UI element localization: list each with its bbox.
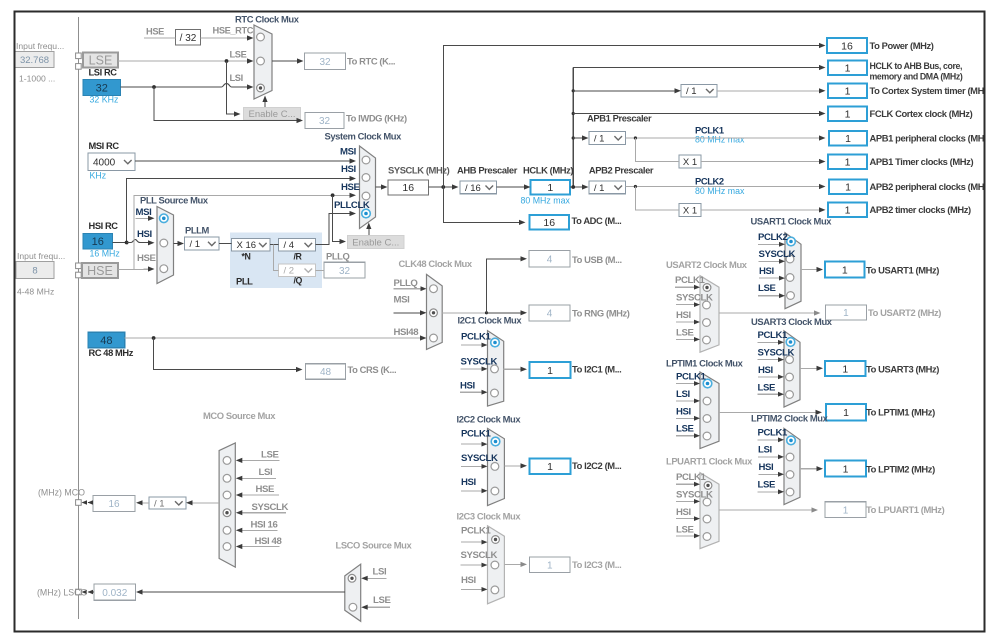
PLLQ dropdown /2 <box>279 264 316 277</box>
wire to cortex prescaler <box>573 90 675 92</box>
stub LSI to LSCO mux <box>367 577 387 579</box>
svg-text:1: 1 <box>842 363 848 375</box>
cortex prescaler dropdown /1 <box>681 84 717 97</box>
svg-text:16: 16 <box>402 182 414 194</box>
svg-text:MSI: MSI <box>394 295 411 306</box>
APB2 multiplier X1 <box>679 204 701 217</box>
usart3 radio LSE <box>786 391 794 399</box>
svg-text:/ 2: / 2 <box>284 266 295 277</box>
RTC Clock Mux <box>254 25 272 99</box>
svg-text:16 MHz: 16 MHz <box>90 249 120 259</box>
stub SYSCLK to USART2 mux <box>676 304 695 306</box>
junction SYSCLK <box>441 185 445 189</box>
wire I2C1 out <box>504 368 521 370</box>
usart2 radio PCLK1 selected <box>703 284 711 292</box>
svg-text:I2C3 Clock Mux: I2C3 Clock Mux <box>457 511 522 522</box>
LSCO connector square <box>76 589 82 595</box>
LPTIM1 value box 1 <box>826 404 866 421</box>
svg-text:HSI48: HSI48 <box>394 327 420 338</box>
junction CLK48 out <box>485 311 488 314</box>
svg-text:16: 16 <box>841 40 853 52</box>
svg-text:HSI: HSI <box>759 462 775 473</box>
svg-text:/R: /R <box>294 252 303 262</box>
I2C3 Clock Mux <box>488 526 505 604</box>
junction APB1 timer branch <box>634 136 637 139</box>
svg-text:16: 16 <box>92 236 104 248</box>
svg-text:KHz: KHz <box>90 171 107 181</box>
i2c3 radio SYSCLK <box>491 561 499 569</box>
svg-text:PLL: PLL <box>236 276 253 287</box>
wire LSI to RTC mux with hop <box>121 84 248 88</box>
mco radio HSI48 <box>223 543 231 551</box>
svg-text:SYSCLK: SYSCLK <box>676 490 713 501</box>
wire cortex prescaler to box <box>717 90 820 92</box>
svg-text:SYSCLK: SYSCLK <box>759 249 796 260</box>
svg-text:/ 1: / 1 <box>594 183 605 194</box>
I2C2 Clock Mux <box>488 428 505 505</box>
usart2 radio HSI <box>703 319 711 327</box>
wire HSE to PLL mux <box>134 268 149 270</box>
svg-text:32: 32 <box>319 57 331 68</box>
svg-text:1: 1 <box>845 63 851 75</box>
svg-text:PLLCLK: PLLCLK <box>334 200 370 211</box>
margin mask right <box>986 0 999 640</box>
lptim2 radio LSE <box>786 488 794 496</box>
svg-text:To LPTIM2 (MHz): To LPTIM2 (MHz) <box>866 464 935 475</box>
svg-text:HSI: HSI <box>460 381 476 392</box>
wire SYSCLK to Power <box>443 46 819 188</box>
svg-text:1: 1 <box>547 182 553 194</box>
svg-text:1: 1 <box>845 156 851 168</box>
stub LSI to MCO mux <box>241 477 276 479</box>
lptim2 radio LSI <box>786 453 794 461</box>
wire xN to /R <box>270 243 279 245</box>
svg-text:HSI: HSI <box>676 407 692 418</box>
stub LSE to LPTIM2 mux <box>758 491 779 493</box>
svg-text:RC 48 MHz: RC 48 MHz <box>89 348 134 358</box>
svg-text:HCLK (MHz): HCLK (MHz) <box>523 165 573 176</box>
wire SYSCLK to ADC <box>443 187 519 222</box>
svg-text:To ADC (M...: To ADC (M... <box>572 215 622 226</box>
svg-text:LPTIM2 Clock Mux: LPTIM2 Clock Mux <box>751 413 829 424</box>
svg-text:LSI: LSI <box>259 467 273 478</box>
svg-text:LPTIM1 Clock Mux: LPTIM1 Clock Mux <box>666 358 744 369</box>
PLL mux radio HSI <box>160 239 168 247</box>
mco radio HSE <box>223 491 231 499</box>
stub HSI to USART2 mux <box>676 321 695 323</box>
junction cortex row <box>572 89 575 92</box>
APB2 prescaler dropdown /1 <box>589 181 626 194</box>
i2c1 radio HSI <box>491 389 499 397</box>
stub SYSCLK to I2C3 mux <box>461 564 483 566</box>
svg-text:APB2 Prescaler: APB2 Prescaler <box>589 165 654 176</box>
svg-text:/ 1: / 1 <box>594 133 605 144</box>
USART1 Clock Mux <box>785 233 801 309</box>
CRS value box 48 <box>306 364 346 380</box>
svg-text:16: 16 <box>543 217 555 229</box>
wire LSE to RTC mux <box>118 60 248 62</box>
wire MSI to System mux <box>135 160 350 162</box>
stub PCLK1 to USART3 mux <box>758 341 779 343</box>
svg-text:LSI: LSI <box>758 445 772 456</box>
svg-text:CLK48 Clock Mux: CLK48 Clock Mux <box>399 258 473 269</box>
stub LSE to LPTIM1 mux <box>676 435 695 437</box>
svg-text:/ 1: / 1 <box>154 498 165 509</box>
svg-text:LSI: LSI <box>373 567 387 578</box>
I2C1 value box 1 <box>530 362 571 378</box>
svg-text:1: 1 <box>843 407 849 419</box>
svg-text:LSI: LSI <box>676 389 690 400</box>
svg-text:APB2 timer clocks (MHz): APB2 timer clocks (MHz) <box>870 204 972 215</box>
stub MSI to CLK48 mux <box>394 312 421 314</box>
HSE input frequency field 8 <box>16 262 54 279</box>
svg-text:/ 16: / 16 <box>465 183 481 194</box>
svg-text:To LPUART1 (MHz): To LPUART1 (MHz) <box>866 504 945 515</box>
usart2 radio SYSCLK <box>703 301 711 309</box>
clk48 radio MSI selected <box>430 309 438 317</box>
System Clock Mux <box>360 146 376 229</box>
usart1 radio PCLK2 selected <box>787 237 796 246</box>
svg-text:SYSCLK: SYSCLK <box>461 550 498 561</box>
stub PCLK1 to I2C3 mux <box>461 541 482 543</box>
usart1 radio HSI <box>786 274 794 282</box>
HSE connector squares <box>76 263 82 269</box>
lptim1 radio HSI <box>703 415 711 423</box>
LPTIM1 Clock Mux <box>700 372 719 449</box>
stub PCLK1 to USART2 mux <box>675 286 695 288</box>
svg-text:HSI 16: HSI 16 <box>251 520 278 531</box>
svg-text:HSI: HSI <box>758 365 774 376</box>
svg-text:LSI: LSI <box>230 73 243 83</box>
stub HSI16 to MCO mux <box>241 529 278 531</box>
stub SYSCLK to LPUART1 mux <box>676 500 695 502</box>
stub PCLK1 to LPUART1 mux <box>676 483 695 485</box>
svg-text:1: 1 <box>845 133 851 145</box>
svg-text:1: 1 <box>843 463 849 475</box>
Cortex timer box 1 <box>828 84 867 99</box>
junction LSE <box>225 59 229 63</box>
RNG value box 4 <box>529 305 570 321</box>
FCLK box 1 <box>828 106 867 121</box>
svg-text:APB1 Prescaler: APB1 Prescaler <box>587 113 652 124</box>
LSE connector squares <box>76 53 82 59</box>
USB value box 4 <box>529 251 570 268</box>
svg-text:SYSCLK: SYSCLK <box>252 502 289 513</box>
wire CLK48 out <box>442 312 486 314</box>
i2c1 radio SYSCLK <box>491 365 499 373</box>
svg-text:32 KHz: 32 KHz <box>90 95 119 105</box>
svg-text:1: 1 <box>845 86 851 98</box>
svg-text:Input frequ...: Input frequ... <box>17 251 65 261</box>
svg-text:APB1 Timer clocks (MHz): APB1 Timer clocks (MHz) <box>870 156 974 167</box>
svg-text:X 16: X 16 <box>237 240 257 251</box>
RTC value box 32 <box>305 53 346 70</box>
svg-text:LSE: LSE <box>758 383 776 394</box>
svg-text:1: 1 <box>845 205 851 217</box>
svg-text:I2C1 Clock Mux: I2C1 Clock Mux <box>458 315 523 326</box>
mco radio SYSCLK selected <box>223 509 231 517</box>
APB2 timer box 1 <box>828 203 867 218</box>
APB1 timer box 1 <box>828 154 867 169</box>
svg-text:Enable C...: Enable C... <box>249 109 296 120</box>
usart2 radio LSE <box>703 336 711 344</box>
wire APB1 to X1 <box>635 138 679 162</box>
wire HCLK to tree <box>570 186 583 188</box>
lsco radio LSI selected <box>348 574 356 582</box>
svg-text:8: 8 <box>32 265 37 276</box>
MCO double arrow to pin <box>88 502 93 504</box>
system mux radio HSE <box>362 192 370 200</box>
svg-text:PCLK1: PCLK1 <box>758 428 789 439</box>
I2C2 value box 1 <box>530 459 571 475</box>
svg-text:HSE: HSE <box>341 182 361 193</box>
svg-text:4-48 MHz: 4-48 MHz <box>17 287 54 297</box>
i2c1 radio PCLK1 selected <box>491 338 500 347</box>
svg-text:To USART2 (MHz): To USART2 (MHz) <box>868 307 941 318</box>
svg-text:1-1000 ...: 1-1000 ... <box>19 74 55 84</box>
PLL mux radio HSE <box>160 265 168 273</box>
wire LSE branch to Enable button <box>227 61 235 114</box>
mco radio HSI16 <box>223 526 231 534</box>
svg-text:PLL Source Mux: PLL Source Mux <box>140 195 209 206</box>
svg-text:HSE: HSE <box>87 264 113 278</box>
MSI RC dropdown 4000 <box>88 153 135 171</box>
svg-text:32.768: 32.768 <box>20 55 49 66</box>
svg-text:PCLK1: PCLK1 <box>758 330 789 341</box>
junction HSI <box>125 241 129 245</box>
stub PCLK1 to LPTIM1 mux <box>676 383 695 385</box>
svg-text:80 MHz max: 80 MHz max <box>521 196 571 206</box>
svg-text:/ 4: / 4 <box>284 240 295 251</box>
svg-text:FCLK Cortex clock (MHz): FCLK Cortex clock (MHz) <box>870 108 973 119</box>
USART2 value box 1 <box>825 305 866 320</box>
svg-text:Enable C...: Enable C... <box>352 237 399 248</box>
svg-text:HSE: HSE <box>146 27 164 37</box>
RTC mux radio LSI selected <box>257 84 265 92</box>
svg-text:I2C2 Clock Mux: I2C2 Clock Mux <box>457 414 522 425</box>
wire LPTIM1 out <box>719 411 816 413</box>
svg-text:PCLK1: PCLK1 <box>675 275 706 286</box>
MCO connector square <box>76 500 82 506</box>
wire SYSCLK to AHB prescaler <box>429 186 453 188</box>
PLL mux radio MSI selected <box>160 214 169 223</box>
stub LSE to MCO mux <box>241 459 279 461</box>
RTC HSE divider /32 <box>176 30 201 46</box>
stub SYSCLK to I2C2 mux <box>461 465 482 467</box>
svg-text:HSI: HSI <box>676 507 692 518</box>
usart3 radio SYSCLK <box>786 356 794 364</box>
stub PCLK1 to LPTIM2 mux <box>758 439 779 441</box>
usart1 radio SYSCLK <box>786 255 794 263</box>
svg-text:32: 32 <box>339 266 351 277</box>
wire to USB <box>487 259 522 313</box>
stub HSI to LPUART1 mux <box>676 518 695 520</box>
svg-text:To USART1 (MHz): To USART1 (MHz) <box>866 265 939 276</box>
lpuart1 radio SYSCLK <box>703 498 711 506</box>
PLLQ value box 32 <box>324 262 365 278</box>
LSE input frequency field 32.768 <box>15 52 54 68</box>
svg-text:APB2 peripheral clocks (MH: APB2 peripheral clocks (MH <box>870 181 985 192</box>
svg-text:1: 1 <box>547 365 553 377</box>
svg-text:LSCO Source Mux: LSCO Source Mux <box>336 540 413 551</box>
wire HSE source web <box>118 195 350 269</box>
usart3 radio PCLK1 selected <box>786 338 795 347</box>
svg-text:1: 1 <box>547 560 553 571</box>
stub HSI to USART3 mux <box>758 376 779 378</box>
svg-text:To RNG (MHz): To RNG (MHz) <box>572 308 630 319</box>
wire /32 to RTC mux <box>201 37 248 39</box>
junction FCLK row <box>572 112 575 115</box>
RC48 oscillator box 48 <box>88 332 125 347</box>
svg-text:PCLK2: PCLK2 <box>695 176 724 187</box>
stub HSI to I2C2 mux <box>461 490 482 492</box>
svg-text:PCLK1: PCLK1 <box>461 332 492 343</box>
lpuart1 radio PCLK1 selected <box>704 482 712 490</box>
lpuart1 radio HSI <box>703 515 711 523</box>
Enable button (CSS) <box>348 236 405 249</box>
APB1 multiplier X1 <box>679 155 701 168</box>
svg-text:To I2C2 (M...: To I2C2 (M... <box>572 460 621 471</box>
svg-text:1: 1 <box>845 108 851 120</box>
stub PLLQ to CLK48 mux <box>394 288 422 290</box>
wire PLL mux to PLLM <box>174 243 179 245</box>
wire X1 to APB1 timer box <box>701 161 820 163</box>
IWDG value box 32 <box>305 113 344 129</box>
SYSCLK value box 16 <box>388 180 429 195</box>
lptim2 radio PCLK1 selected <box>787 436 796 445</box>
svg-text:HSE_RTC: HSE_RTC <box>213 26 254 36</box>
RTC enable arrow <box>264 100 266 109</box>
system mux radio MSI <box>362 156 370 164</box>
svg-text:80 MHz max: 80 MHz max <box>695 135 745 145</box>
wire APB1 to peripheral box <box>625 137 819 139</box>
svg-text:4: 4 <box>547 309 553 320</box>
MCO value box 16 <box>93 496 135 512</box>
APB1 prescaler dropdown /1 <box>589 132 626 145</box>
RTC mux radio HSE_RTC <box>257 33 265 41</box>
svg-text:HSI: HSI <box>461 477 477 488</box>
lptim1 radio PCLK1 selected <box>703 379 712 388</box>
svg-text:HSI 48: HSI 48 <box>255 536 283 547</box>
stub LSE to LPUART1 mux <box>676 535 695 537</box>
svg-text:USART3 Clock Mux: USART3 Clock Mux <box>751 316 833 327</box>
wire USART3 out <box>800 367 817 369</box>
LSCO double arrow to pin <box>88 591 94 593</box>
PLLM dropdown /1 <box>185 237 220 250</box>
svg-text:/Q: /Q <box>294 276 303 286</box>
svg-text:4000: 4000 <box>93 157 116 168</box>
mco radio LSI <box>223 474 231 482</box>
wire system mux to SYSCLK box <box>376 186 382 188</box>
HSI RC oscillator box 16 <box>83 234 113 250</box>
usart3 radio HSI <box>786 373 794 381</box>
wire USART2 out <box>719 312 815 314</box>
svg-text:(MHz) MCO: (MHz) MCO <box>38 488 85 498</box>
svg-text:LSE: LSE <box>230 50 247 60</box>
LPTIM2 value box 1 <box>825 461 866 477</box>
LSCO value box 0.032 <box>94 584 136 600</box>
svg-text:HCLK to AHB Bus, core,: HCLK to AHB Bus, core, <box>870 61 963 71</box>
svg-text:To RTC (K...: To RTC (K... <box>347 56 395 67</box>
clk48 radio HSI48 <box>430 334 438 342</box>
svg-text:HSI RC: HSI RC <box>89 221 119 231</box>
junction LSI <box>152 85 156 89</box>
RTC mux radio LSE <box>257 57 265 65</box>
wire /Q to PLLQ box <box>316 269 325 271</box>
wire I2C3 out <box>504 563 521 565</box>
Enable button (RTC) <box>244 108 301 121</box>
USART2 Clock Mux <box>700 276 719 353</box>
svg-text:APB1 peripheral clocks (MH: APB1 peripheral clocks (MH <box>870 133 985 144</box>
wire APB2 to X1 <box>635 187 679 210</box>
LSCO Source Mux <box>345 564 361 621</box>
PLL multiplier dropdown X16 <box>232 238 271 251</box>
stub SYSCLK to USART3 mux <box>758 359 779 361</box>
lptim1 radio LSI <box>703 397 711 405</box>
wire PLLM to xN <box>219 243 232 245</box>
USART3 value box 1 <box>825 361 866 376</box>
stub PCLK2 to USART1 mux <box>758 243 780 245</box>
HCLK value box 1 <box>531 180 571 195</box>
svg-text:X 1: X 1 <box>683 157 697 168</box>
svg-text:LSE: LSE <box>261 450 279 461</box>
wire HSI source web <box>113 242 127 244</box>
svg-text:PCLK2: PCLK2 <box>758 232 788 243</box>
wire to RNG <box>487 312 522 314</box>
PLL shaded region <box>230 233 322 289</box>
svg-text:1: 1 <box>843 505 849 516</box>
svg-text:Input frequ...: Input frequ... <box>16 41 64 51</box>
svg-text:HSI: HSI <box>676 310 692 321</box>
svg-text:To I2C3 (M...: To I2C3 (M... <box>572 559 621 570</box>
system mux radio HSI <box>362 174 370 182</box>
stub HSI to LPTIM2 mux <box>759 473 779 475</box>
stub LSE to USART2 mux <box>676 338 695 340</box>
svg-text:To I2C1 (M...: To I2C1 (M... <box>572 364 621 375</box>
LPUART1 Clock Mux <box>700 473 719 549</box>
svg-text:To USART3 (MHz): To USART3 (MHz) <box>866 364 939 375</box>
svg-text:PLLM: PLLM <box>185 225 210 236</box>
wire AHB to HCLK <box>497 186 525 188</box>
svg-text:16: 16 <box>108 499 120 510</box>
ADC value box 16 <box>530 215 570 230</box>
wire LPTIM2 out <box>800 468 817 470</box>
stub HSI to USART1 mux <box>759 277 780 279</box>
svg-text:SYSCLK: SYSCLK <box>461 453 498 464</box>
wire to AHB bus row <box>573 67 819 69</box>
stub LSE to USART1 mux <box>758 295 780 297</box>
PLL Source Mux <box>157 207 174 284</box>
stub SYSCLK to USART1 mux <box>759 260 780 262</box>
svg-text:To Cortex System timer (MH: To Cortex System timer (MH <box>870 85 985 96</box>
lsco radio LSE <box>349 603 357 611</box>
svg-text:PCLK1: PCLK1 <box>461 526 492 537</box>
stub HSI to LPTIM1 mux <box>676 417 695 419</box>
stub SYSCLK to I2C1 mux <box>461 368 483 370</box>
svg-text:48: 48 <box>320 367 332 378</box>
stub HSI to I2C3 mux <box>461 588 482 590</box>
svg-text:To LPTIM1 (MHz): To LPTIM1 (MHz) <box>866 407 935 418</box>
svg-text:(MHz) LSCO: (MHz) LSCO <box>37 588 87 598</box>
wire xN branch to /Q <box>274 244 279 270</box>
svg-text:PCLK1: PCLK1 <box>676 372 707 383</box>
junction HSE <box>331 193 335 197</box>
svg-text:To Power (MHz): To Power (MHz) <box>870 40 934 51</box>
svg-text:1: 1 <box>842 264 848 276</box>
svg-text:LSE: LSE <box>758 480 776 491</box>
i2c3 radio HSI <box>491 586 499 594</box>
svg-text:USART1 Clock Mux: USART1 Clock Mux <box>751 216 833 227</box>
